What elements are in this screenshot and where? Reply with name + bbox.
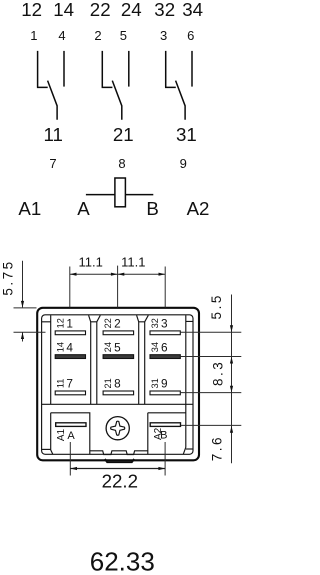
row1 extension right bbox=[181, 331, 242, 333]
svg-text:8.3: 8.3 bbox=[211, 360, 226, 386]
channel between column 2 and 3 bbox=[137, 315, 149, 404]
svg-text:4: 4 bbox=[66, 340, 73, 354]
coil left lead wire bbox=[86, 194, 115, 196]
column 1 left wall bbox=[42, 315, 51, 404]
bottom extension A2 bbox=[164, 442, 166, 476]
terminal slot 14 (filled) bbox=[55, 355, 85, 359]
svg-text:14: 14 bbox=[55, 342, 65, 352]
svg-text:3: 3 bbox=[161, 317, 168, 331]
svg-text:31: 31 bbox=[150, 378, 160, 388]
moving blade of pole 2 bbox=[112, 81, 122, 120]
svg-text:7: 7 bbox=[49, 156, 56, 171]
terminal slot A1 bbox=[56, 423, 86, 427]
svg-text:1: 1 bbox=[30, 28, 37, 43]
svg-text:9: 9 bbox=[180, 156, 187, 171]
svg-text:B: B bbox=[160, 429, 167, 441]
A2 corner tick bbox=[186, 448, 193, 450]
screw phillips recess bbox=[111, 421, 125, 435]
terminal slot 24 (filled) bbox=[103, 355, 134, 359]
row2 extension right bbox=[181, 356, 242, 358]
svg-text:62.33: 62.33 bbox=[90, 547, 155, 575]
svg-text:6: 6 bbox=[187, 28, 194, 43]
svg-text:12: 12 bbox=[21, 0, 42, 20]
relay body outer outline bbox=[37, 308, 199, 461]
svg-text:8: 8 bbox=[118, 156, 125, 171]
svg-text:3: 3 bbox=[160, 28, 167, 43]
coil right lead wire bbox=[125, 194, 153, 196]
extension line column 3 bbox=[164, 267, 166, 308]
5.75 extension tick top bbox=[14, 307, 37, 309]
5.75 dimension line upper bbox=[22, 261, 24, 308]
terminal slot 21 bbox=[103, 391, 134, 395]
svg-text:24: 24 bbox=[121, 0, 142, 20]
moving blade of pole 1 bbox=[48, 81, 58, 120]
arrow 5.75 bottom bbox=[21, 332, 24, 339]
svg-text:22: 22 bbox=[90, 0, 111, 20]
arrow 22.2 right bbox=[158, 467, 165, 470]
contact pole 2 (21-22-24) bbox=[102, 51, 129, 120]
svg-text:32: 32 bbox=[154, 0, 175, 20]
column 3 right wall bbox=[183, 315, 193, 454]
NO contact 34 wire bbox=[191, 51, 193, 87]
channel between column 1 and 2 bbox=[89, 315, 101, 404]
svg-text:A: A bbox=[77, 198, 90, 219]
svg-text:4: 4 bbox=[58, 28, 65, 43]
outer bottom mounting bump bbox=[105, 459, 134, 462]
relay body inner outline bbox=[42, 315, 193, 455]
arrow 8.3 bottom bbox=[230, 386, 233, 393]
arrow 8.3 top bbox=[230, 357, 233, 364]
terminal slot 22 bbox=[103, 331, 134, 335]
svg-text:5: 5 bbox=[120, 28, 127, 43]
arrow 5.5 bbox=[230, 325, 233, 332]
svg-text:5: 5 bbox=[114, 340, 121, 354]
svg-text:21: 21 bbox=[103, 378, 113, 388]
svg-text:7: 7 bbox=[66, 377, 73, 391]
svg-text:11.1: 11.1 bbox=[79, 255, 103, 270]
terminal slot 31 bbox=[150, 391, 180, 395]
arrow 5.75 top bbox=[21, 301, 24, 308]
extension line column 1 bbox=[69, 267, 71, 308]
svg-text:31: 31 bbox=[176, 124, 197, 145]
screw compartment floor with notches bbox=[90, 451, 148, 455]
svg-text:2: 2 bbox=[114, 317, 121, 331]
svg-text:34: 34 bbox=[150, 342, 160, 352]
NO contact 14 wire bbox=[63, 51, 65, 87]
terminal slot 11 bbox=[55, 391, 85, 395]
contact pole 3 (31-32-34) bbox=[165, 51, 192, 120]
svg-text:11: 11 bbox=[55, 379, 65, 389]
moving blade of pole 3 bbox=[176, 81, 186, 120]
arrow 11.1 mid-right bbox=[118, 273, 125, 276]
svg-text:24: 24 bbox=[103, 342, 113, 352]
svg-text:32: 32 bbox=[150, 318, 160, 328]
arrow 11.1 right bbox=[159, 273, 166, 276]
svg-text:A2: A2 bbox=[187, 198, 210, 219]
terminal slot 12 bbox=[55, 331, 85, 335]
NC contact 12 wire bbox=[37, 51, 48, 88]
row1 extension left bbox=[14, 331, 46, 333]
svg-text:11.1: 11.1 bbox=[121, 255, 145, 270]
NC contact 22 wire bbox=[102, 51, 113, 88]
svg-text:A1: A1 bbox=[18, 198, 41, 219]
svg-text:21: 21 bbox=[113, 124, 134, 145]
footprint pad labels bbox=[55, 317, 168, 443]
right dimension line bbox=[231, 295, 233, 464]
row3 extension right bbox=[181, 392, 242, 394]
svg-text:12: 12 bbox=[55, 318, 65, 328]
arrow 11.1 left bbox=[70, 273, 77, 276]
svg-text:5.75: 5.75 bbox=[1, 259, 16, 295]
arrow 7.6 bottom outside bbox=[230, 426, 233, 433]
svg-text:5.5: 5.5 bbox=[209, 293, 224, 319]
NO contact 24 wire bbox=[128, 51, 130, 87]
A1 corner tick bbox=[42, 448, 51, 450]
terminal slot 32 bbox=[150, 331, 180, 335]
contact pole 1 (11-12-14) bbox=[37, 51, 64, 120]
svg-text:9: 9 bbox=[161, 377, 168, 391]
divider above A-row bbox=[42, 403, 193, 405]
extension line column 2 bbox=[117, 266, 119, 308]
svg-text:2: 2 bbox=[94, 28, 101, 43]
mounting screw bbox=[106, 417, 129, 440]
svg-text:B: B bbox=[146, 198, 158, 219]
svg-text:11: 11 bbox=[43, 124, 62, 145]
coil K1 bbox=[115, 178, 126, 207]
bottom extension A1 bbox=[69, 442, 71, 476]
arrow 22.2 left bbox=[70, 467, 77, 470]
dimension line 11.1 spans bbox=[70, 273, 165, 275]
terminal slot 34 (filled) bbox=[150, 355, 180, 359]
svg-text:22: 22 bbox=[103, 318, 113, 328]
svg-text:6: 6 bbox=[161, 340, 168, 354]
A1 pocket bbox=[51, 413, 90, 454]
svg-text:8: 8 bbox=[114, 377, 121, 391]
svg-text:7.6: 7.6 bbox=[210, 435, 225, 461]
terminal slot A2 bbox=[150, 423, 180, 427]
5.75 dimension line lower bbox=[22, 332, 24, 341]
svg-text:34: 34 bbox=[182, 0, 203, 20]
A2 pocket bbox=[148, 413, 186, 454]
svg-text:A1: A1 bbox=[56, 428, 67, 441]
arrow 11.1 mid-left bbox=[111, 273, 118, 276]
svg-text:A: A bbox=[67, 430, 75, 442]
svg-text:14: 14 bbox=[53, 0, 74, 20]
NC contact 32 wire bbox=[165, 51, 176, 88]
svg-text:1: 1 bbox=[66, 317, 73, 331]
svg-text:22.2: 22.2 bbox=[102, 471, 138, 492]
A-row extension right bbox=[181, 424, 241, 426]
